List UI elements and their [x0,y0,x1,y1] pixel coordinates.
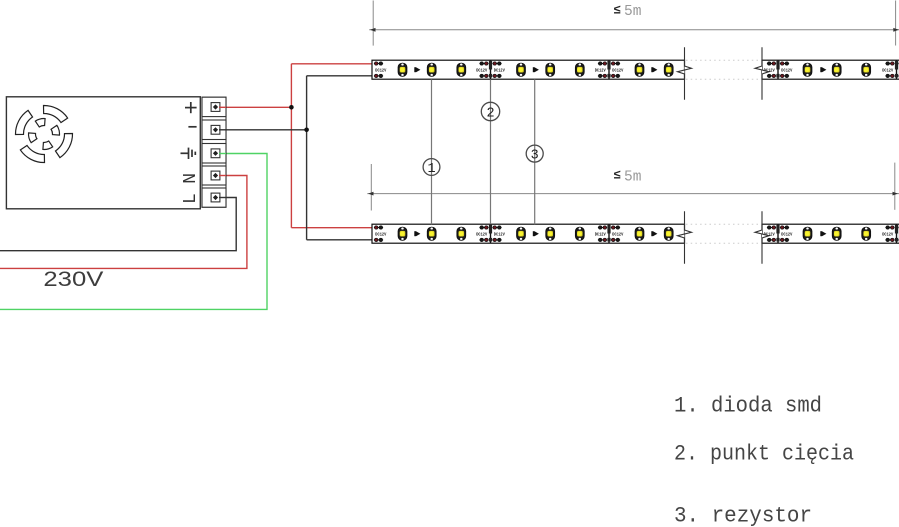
svg-text:3: 3 [531,148,539,163]
svg-text:N: N [181,173,201,184]
svg-text:1: 1 [427,162,435,177]
svg-text:L: L [181,193,201,204]
svg-text:230V: 230V [43,268,103,291]
svg-text:≤: ≤ [614,4,622,18]
svg-text:≤: ≤ [614,168,622,182]
svg-text:5m: 5m [624,4,641,20]
svg-text:1. dioda smd: 1. dioda smd [674,393,822,419]
svg-text:2. punkt cięcia: 2. punkt cięcia [674,441,854,467]
svg-text:2: 2 [486,106,494,121]
svg-text:3. rezystor: 3. rezystor [674,503,812,527]
svg-text:5m: 5m [624,170,641,186]
